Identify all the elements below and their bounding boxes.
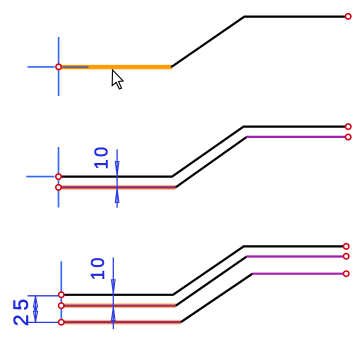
- dimension D3 extension line lower: [28, 321, 59, 323]
- dimension D1 upper arrow: [115, 162, 119, 176]
- dimension D2 upper arrow: [112, 280, 116, 294]
- offset polyline O3 left segment core: [64, 305, 176, 307]
- offset polyline O2 left segment core: [62, 186, 176, 188]
- polyline P1 black segments: [171, 17, 345, 68]
- dimension D2 lower arrow: [112, 307, 116, 321]
- crosshair cursor (middle section): [26, 147, 58, 208]
- mouse arrow cursor: [112, 70, 123, 89]
- construction line (bottom section): [60, 261, 62, 320]
- endpoint marker (end of P2): [346, 124, 351, 129]
- offset polyline O3 right segment (magenta): [246, 255, 343, 257]
- polyline P3 (original, bottom): [64, 246, 343, 294]
- endpoint marker (end of O4): [344, 271, 349, 276]
- offset polyline O2 diagonal segment: [176, 137, 247, 188]
- offset polyline O4 diagonal segment: [181, 274, 253, 323]
- offset polyline O3 left segment halo: [64, 303, 176, 308]
- crosshair cursor (top section): [28, 37, 59, 96]
- endpoint marker (end of P3): [344, 244, 349, 249]
- offset polyline O3 diagonal segment: [176, 257, 247, 306]
- crosshair right arm over highlight (gray overlap): [63, 66, 89, 68]
- dimension D2 line (10, bottom): [112, 258, 114, 330]
- offset polyline O4 left segment halo: [64, 320, 181, 325]
- offset polyline O2 left segment halo: [62, 185, 176, 190]
- endpoint marker (end of O2): [346, 134, 351, 139]
- offset polyline O4 right segment (magenta): [252, 273, 343, 275]
- dimension D3 line (25): [35, 296, 37, 323]
- endpoint marker (start of P1): [56, 64, 61, 69]
- endpoint marker (start of P2): [56, 174, 61, 179]
- endpoint marker (end of P1): [346, 14, 351, 19]
- endpoint marker (end of O3): [344, 254, 349, 259]
- dimension D3 extension line upper: [28, 295, 59, 297]
- svg-text:10: 10: [92, 144, 112, 169]
- dimension D1 lower arrow: [115, 188, 119, 202]
- offset polyline O4 left segment core: [64, 321, 181, 323]
- offset polyline O2 right segment (magenta): [246, 136, 345, 138]
- endpoint marker (start of O4): [59, 320, 64, 325]
- dimension D3 lower arrow: [33, 311, 37, 322]
- polyline P1 highlighted segment (orange): [61, 65, 173, 69]
- endpoint marker (start of O2): [56, 185, 61, 190]
- endpoint marker (start of P3): [59, 292, 64, 297]
- dimension D1 line (10): [116, 149, 118, 208]
- dimension D3 mid marker: [34, 307, 38, 311]
- svg-text:25: 25: [10, 295, 33, 326]
- svg-text:10: 10: [88, 255, 108, 280]
- polyline P2 (original, middle): [62, 127, 346, 177]
- endpoint marker (start of O3): [59, 303, 64, 308]
- dimension D3 upper arrow: [33, 296, 37, 307]
